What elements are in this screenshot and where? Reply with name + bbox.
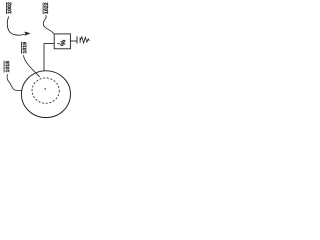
drum outer circle 1018 [21,71,70,118]
anchor bar tall [76,36,78,43]
wire from box right to spring anchor [70,40,77,42]
1019 leader line into drum [23,55,39,77]
glyph foot dash [57,43,60,45]
label 1002 (figure reference numeral, rotated) [6,2,11,14]
percent symbol inside box (rotated) [60,40,65,46]
label 1018 (rotated) [4,61,9,73]
sensor box 1022 [54,34,70,49]
1002 curved arrow [7,16,30,35]
anchor bar short [79,38,81,43]
spring zigzag [80,37,89,43]
label 1022 (rotated) [43,3,48,15]
inner dashed circle 1019 [32,78,59,103]
wire from box left to elbow [44,42,54,44]
1022 leader line to box [43,15,54,34]
label 1019 (rotated) [22,42,27,54]
vertical wire from elbow down to drum [43,43,45,70]
axle center dot [44,88,46,90]
1018 leader line to drum edge [7,74,21,90]
